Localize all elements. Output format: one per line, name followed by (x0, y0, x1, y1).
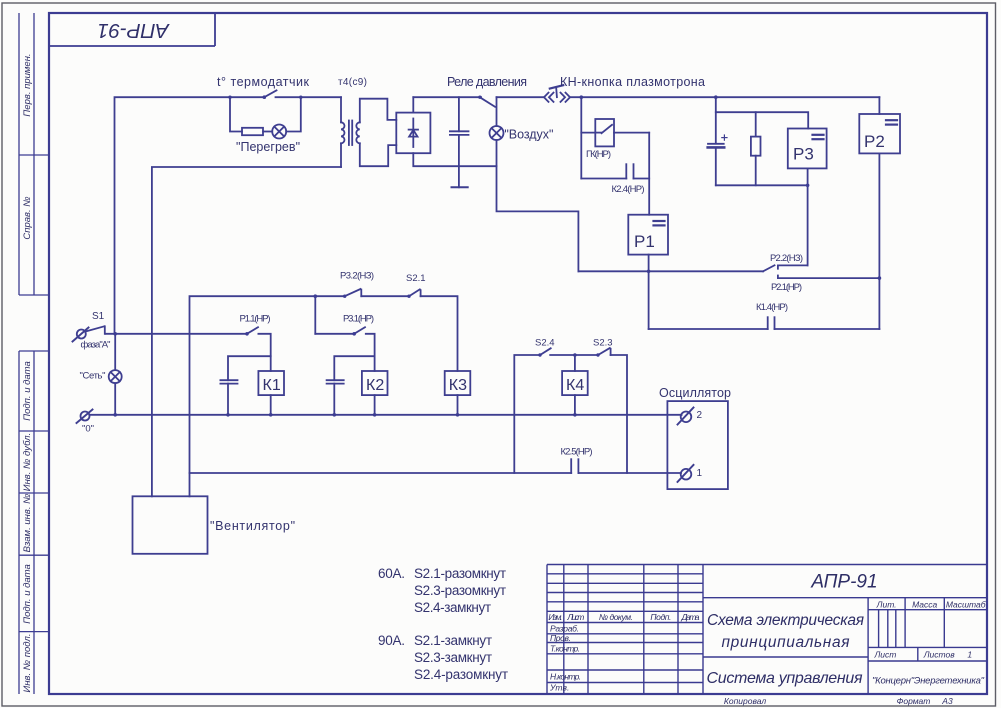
resistor (Перегрев branch) (242, 128, 263, 135)
wire: diode block top to bus (412, 97, 414, 112)
svg-text:К4: К4 (566, 377, 584, 394)
wire: RC bottom rail (716, 184, 808, 186)
switch S1 arm (86, 326, 105, 334)
svg-text:Изм.: Изм. (548, 612, 562, 622)
svg-text:Р2: Р2 (864, 132, 885, 151)
node: line B / P2 junction (878, 276, 882, 280)
title block texts (548, 572, 986, 707)
left margin column cells (19, 13, 49, 694)
svg-text:Подп. и дата: Подп. и дата (22, 564, 33, 623)
wire: top bus segment (497, 96, 544, 98)
svg-text:Разраб.: Разраб. (550, 624, 579, 634)
svg-text:Лист: Лист (873, 650, 896, 660)
wire: phase A bus (106, 333, 248, 335)
svg-text:АПР-91: АПР-91 (810, 572, 877, 593)
relay coil К2 (362, 371, 388, 395)
svg-text:Справ. №: Справ. № (22, 196, 33, 239)
svg-text:S2.4-замкнут: S2.4-замкнут (414, 600, 491, 615)
top stamp box (49, 13, 215, 46)
svg-text:КН-кнопка плазмотрона: КН-кнопка плазмотрона (560, 75, 705, 89)
wire: top bus right segment (570, 96, 879, 98)
contact S thermal t° (on top bus) (263, 90, 277, 99)
svg-text:Р3.1(НР): Р3.1(НР) (343, 314, 374, 325)
contact Реле давления (on top bus) (478, 96, 495, 107)
wire: P2 top feed (878, 97, 880, 114)
wire: К2 feed (366, 334, 375, 371)
node: К4 feed (573, 353, 577, 357)
wire: branch return up to bus (286, 97, 301, 131)
lamp "Сеть" HL (109, 334, 122, 415)
wire: lamp bottom to line A (497, 140, 579, 271)
lamp "Воздух" HL (490, 97, 504, 140)
svg-text:К2.5(НР): К2.5(НР) (561, 447, 593, 458)
svg-text:Т.контр.: Т.контр. (550, 644, 580, 654)
svg-text:S2.3-замкнут: S2.3-замкнут (414, 650, 492, 665)
lamp "Перегрев" HL (272, 125, 286, 139)
svg-text:"Концерн"Энергетехника": "Концерн"Энергетехника" (872, 676, 985, 687)
svg-text:S2.1: S2.1 (406, 273, 426, 284)
svg-text:принципиальная: принципиальная (722, 634, 850, 651)
svg-text:90А.: 90А. (378, 633, 405, 648)
wire: Perегрев branch drop (230, 97, 242, 131)
contact Р3.2(НЗ) (343, 289, 361, 298)
pushbutton КН (544, 85, 570, 102)
wire: К4 bottom (574, 395, 576, 415)
svg-text:Подп.: Подп. (650, 612, 671, 622)
terminal "0" (77, 410, 93, 424)
wire: P3 bottom down to Р2.2 fixed side (807, 168, 809, 265)
svg-text:S2.1-замкнут: S2.1-замкнут (414, 633, 492, 648)
svg-text:Пров.: Пров. (550, 633, 571, 643)
wire: top bus segment to transformer (276, 96, 342, 98)
svg-text:Р2.2(НЗ): Р2.2(НЗ) (770, 253, 803, 264)
capacitor filter C (450, 97, 469, 187)
title block grid (547, 565, 987, 695)
svg-text:Копировал: Копировал (724, 696, 766, 706)
node dots on 0 bus (113, 413, 576, 417)
wire: line A (578, 270, 763, 272)
transformer Т4(С9) primary (341, 97, 345, 167)
wire: bus segment 2 (315, 333, 354, 335)
contact К1.4(НР) on line C (649, 317, 880, 329)
svg-text:S2.3: S2.3 (593, 338, 613, 349)
wire: GK feed vertical (580, 97, 582, 178)
svg-text:S1: S1 (92, 311, 105, 322)
capacitor C2 (К2) (327, 380, 344, 415)
svg-text:Подп. и дата: Подп. и дата (22, 361, 33, 420)
contact Р1.1(НР) (245, 327, 258, 335)
svg-text:S2.4: S2.4 (535, 338, 555, 349)
svg-text:Р1: Р1 (634, 232, 655, 251)
svg-text:"Воздух": "Воздух" (504, 128, 553, 142)
wire: К4 feed (574, 355, 576, 371)
capacitor C1 (К1) (220, 380, 237, 415)
rectifier diode VD block (396, 113, 430, 154)
contact Р2.2(НЗ) arm (763, 265, 774, 271)
relay coil К3 (445, 371, 471, 395)
svg-text:К1: К1 (263, 377, 281, 394)
contact S2.3 (596, 348, 610, 357)
contact К2.4(НР) (581, 164, 649, 178)
node: P3 / bottom rail junction (806, 184, 810, 188)
svg-text:Дата: Дата (681, 612, 700, 622)
svg-text:Осциллятор: Осциллятор (659, 386, 731, 400)
svg-text:фаза"А": фаза"А" (81, 340, 111, 351)
wire (361, 295, 409, 297)
wire: P1 bottom to line C (648, 255, 650, 329)
svg-text:Лит.: Лит. (876, 600, 897, 610)
svg-text:т4(с9): т4(с9) (338, 77, 367, 88)
relay coil К1 (258, 371, 284, 395)
capacitor C+ (electrolytic) (708, 112, 727, 185)
wire: line B to P2 (778, 277, 880, 279)
svg-text:"Сеть": "Сеть" (80, 371, 106, 382)
svg-text:Взам. инв. №: Взам. инв. № (22, 494, 33, 553)
relay coil К4 (562, 371, 588, 395)
svg-text:К1.4(НР): К1.4(НР) (756, 302, 788, 313)
wire: left vertical from top bus to phase A bus (115, 97, 266, 334)
svg-text:АПР-91: АПР-91 (97, 19, 170, 42)
svg-text:"Перегрев": "Перегрев" (236, 140, 300, 154)
ground bar (452, 186, 468, 188)
wire (550, 354, 598, 356)
svg-text:А3: А3 (941, 696, 953, 706)
wire: Р2.2 fixed lead (778, 265, 808, 268)
svg-text:Формат: Формат (897, 696, 931, 706)
node: lamp feed (113, 332, 117, 336)
wire: split to capacitor 2 (334, 356, 374, 380)
contact ГК(НР) in box (595, 119, 614, 146)
node: line A / P1 junction (647, 270, 651, 274)
node: branch junctions (228, 96, 302, 99)
svg-text:Инв. № подл.: Инв. № подл. (22, 634, 33, 693)
wire: P2 bottom vertical to line C (878, 153, 880, 329)
contact S2.4 (538, 348, 550, 356)
wire: down to relay P1 (648, 133, 650, 215)
terminal 1 (678, 465, 694, 482)
svg-text:Инв. № дубл.: Инв. № дубл. (22, 433, 33, 491)
wire: diode block bottom rail (413, 153, 496, 166)
svg-text:К2: К2 (366, 377, 384, 394)
wire: 0 bus (90, 414, 682, 416)
contact Р3.1(НР) (352, 327, 365, 335)
svg-text:1: 1 (697, 468, 703, 479)
svg-text:Перв. примен.: Перв. примен. (22, 53, 33, 116)
svg-text:К3: К3 (449, 377, 467, 394)
terminal 2 (678, 408, 694, 425)
svg-text:S2.3-разомкнут: S2.3-разомкнут (414, 583, 506, 598)
svg-text:S2.4-разомкнут: S2.4-разомкнут (414, 667, 508, 682)
switch S1 terminal (73, 328, 89, 342)
svg-text:"0": "0" (82, 424, 94, 435)
svg-text:2: 2 (697, 410, 703, 421)
wire: RC network top rail (716, 97, 808, 128)
fan box Вентилятор (133, 496, 208, 554)
svg-text:S2.1-разомкнут: S2.1-разомкнут (414, 566, 506, 581)
wire: top bus segment (413, 96, 481, 98)
svg-text:Реле давления: Реле давления (447, 75, 527, 89)
wire: GK left lead (581, 132, 595, 134)
wire: К2 bottom (374, 395, 376, 415)
svg-text:Р3: Р3 (793, 145, 814, 164)
relay P3 (788, 129, 827, 169)
svg-text:Р2.1(НР): Р2.1(НР) (771, 282, 802, 293)
svg-text:Лист: Лист (566, 612, 584, 622)
transformer secondary (356, 99, 396, 167)
resistor R (RC network) (751, 112, 761, 185)
relay P2 (859, 114, 900, 153)
node (314, 294, 318, 298)
margin cell labels (22, 53, 33, 692)
wire: К3 bottom (457, 395, 459, 415)
node: GK feed junction (580, 95, 584, 99)
svg-text:Н.контр.: Н.контр. (550, 672, 581, 682)
contact Р2.1(НР) tick (777, 276, 779, 279)
wire (263, 131, 272, 133)
svg-text:ГК(НР): ГК(НР) (586, 149, 611, 160)
node: RC network junction (714, 95, 718, 99)
svg-text:Р3.2(НЗ): Р3.2(НЗ) (340, 271, 374, 282)
SCHEMATIC TEXT LABELS (80, 75, 885, 682)
svg-text:К2.4(НР): К2.4(НР) (612, 184, 645, 195)
wire: to К3 (421, 296, 458, 371)
svg-text:Масштаб: Масштаб (946, 600, 987, 610)
wire: split to capacitor 1 (228, 356, 271, 380)
svg-text:1: 1 (967, 650, 972, 660)
svg-text:Масса: Масса (912, 600, 937, 610)
relay P1 (628, 215, 668, 255)
svg-text:№ докум.: № докум. (599, 612, 633, 622)
svg-text:Схема электрическая: Схема электрическая (707, 612, 864, 629)
svg-text:t° термодатчик: t° термодатчик (217, 75, 310, 89)
transformer core (349, 121, 352, 146)
wire: transformer primary bottom to fan feed (152, 167, 341, 496)
contact К2.5(НР) on oscillator line (190, 459, 682, 473)
svg-text:60А.: 60А. (378, 566, 405, 581)
wire: right vertical down (611, 355, 627, 473)
svg-text:"Вентилятор": "Вентилятор" (210, 519, 295, 533)
wire: GK right lead (614, 132, 649, 134)
wire: К1 bottom (270, 395, 272, 415)
svg-text:Утв.: Утв. (549, 683, 569, 693)
svg-text:Система управления: Система управления (707, 670, 863, 687)
contact S2.1 (407, 289, 420, 298)
wire: К1 feed (258, 334, 270, 371)
svg-text:Р1.1(НР): Р1.1(НР) (240, 314, 271, 325)
wire: branch down to P3.1 segment (314, 296, 316, 334)
svg-text:Листов: Листов (923, 650, 956, 660)
oscillator box Осциллятор (667, 401, 728, 489)
wire: upper branch rail (190, 296, 345, 496)
wire: S2.4/S2.3 line left vertical (514, 355, 540, 473)
